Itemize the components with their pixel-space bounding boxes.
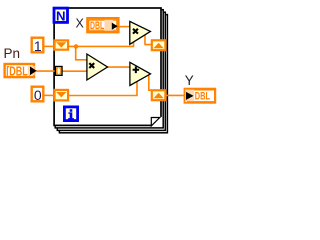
left shift register 2 (down arrow): [55, 90, 69, 101]
wire: 0 constant to left shift register 2: [44, 94, 54, 96]
multiply node (top): [130, 21, 151, 44]
array control terminal Pn [DBL]: [5, 64, 37, 79]
right shift register 1 (up arrow): [152, 40, 166, 50]
wire: middle multiply output to add top input: [107, 66, 131, 68]
for-loop frame front sheet: [54, 8, 161, 125]
page curl (folded corner, bottom-right of front sheet): [151, 117, 162, 127]
auto-indexing tunnel on left border: [55, 67, 62, 76]
node junction dot: [74, 44, 79, 49]
wire: Pn terminal to tunnel: [36, 70, 56, 72]
wire: right shift register 2 to Y indicator: [166, 94, 184, 96]
numeric indicator terminal Y DBL: [185, 89, 216, 103]
wire: top multiply output down to right shift register 1: [145, 33, 151, 44]
wire: tunnel to middle multiply bottom input: [62, 70, 87, 72]
for-loop frame sheet 3: [57, 12, 165, 130]
svg-text:Pn: Pn: [4, 46, 21, 61]
svg-text:N: N: [56, 8, 66, 23]
right shift register 2 (up arrow): [152, 90, 166, 100]
for-loop frame sheet 2: [55, 10, 163, 128]
svg-text:Y: Y: [185, 73, 194, 88]
svg-text:0: 0: [34, 87, 42, 103]
svg-text:[DBL]: [DBL]: [6, 65, 31, 79]
wire: 1 constant to left shift register 1: [44, 45, 54, 47]
left shift register 1 (down arrow): [55, 40, 69, 49]
wire: left shift register 1 to junction and on to top multiply riser: [69, 41, 134, 47]
numeric constant 1: [32, 38, 44, 54]
add node: [130, 62, 151, 85]
multiply node (middle): [87, 54, 108, 80]
wire: X control to top multiply top input: [119, 26, 130, 28]
iteration terminal i: [64, 107, 77, 121]
loop count terminal N: [54, 8, 68, 23]
for-loop frame sheet 4 (back): [59, 15, 167, 133]
numeric constant 0: [32, 87, 44, 103]
wire: left shift register 2 to add bottom input: [69, 80, 138, 96]
svg-text:X: X: [76, 17, 85, 31]
svg-text:1: 1: [34, 38, 42, 54]
svg-text:DBL: DBL: [90, 20, 104, 32]
numeric control terminal X DBL: [87, 18, 118, 32]
svg-text:DBL: DBL: [195, 91, 210, 103]
wire: add output down to right shift register 2: [149, 74, 152, 90]
wire: junction down to middle multiply top input: [76, 47, 87, 60]
